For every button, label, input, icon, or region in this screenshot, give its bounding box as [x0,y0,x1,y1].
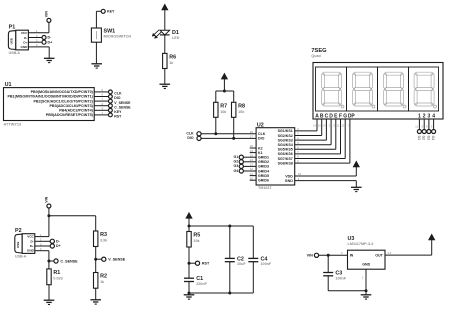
svg-text:U1: U1 [5,82,12,88]
svg-text:3: 3 [428,113,431,119]
svg-text:0.033: 0.033 [53,277,62,281]
svg-text:G4: G4 [431,136,435,140]
svg-text:D-: D- [31,239,34,243]
svg-text:USB-A: USB-A [15,254,27,258]
svg-text:SG8/KS8: SG8/KS8 [278,161,293,165]
svg-text:R2: R2 [100,274,107,280]
svg-text:G3: G3 [426,136,430,140]
svg-text:D+: D+ [23,41,27,45]
svg-text:SG2/KS2: SG2/KS2 [278,134,293,138]
svg-text:G1: G1 [234,155,239,159]
svg-text:GND: GND [285,179,293,183]
svg-text:VCC: VCC [21,31,28,35]
svg-text:R6: R6 [169,55,176,61]
svg-text:DIO: DIO [114,96,121,100]
svg-text:P1: P1 [9,25,16,31]
svg-text:SG5/KS5: SG5/KS5 [278,148,293,152]
svg-text:10k: 10k [220,110,227,114]
svg-text:2: 2 [423,113,426,119]
svg-text:G2: G2 [234,160,239,164]
svg-text:VIN: VIN [44,196,48,202]
svg-text:OUT: OUT [375,254,383,258]
svg-text:D+: D+ [48,40,53,44]
svg-text:SG4/KS4: SG4/KS4 [278,143,293,147]
svg-text:GND: GND [27,249,35,253]
svg-text:IN: IN [350,254,354,258]
svg-text:C_SENSE: C_SENSE [60,259,78,263]
svg-text:ATTINY13: ATTINY13 [4,123,22,127]
svg-text:R3: R3 [100,232,107,238]
svg-text:100nF: 100nF [261,262,272,266]
svg-text:PB0(MOSI/AIN0/OC0A/TXD/PCINT0): PB0(MOSI/AIN0/OC0A/TXD/PCINT0) [31,90,94,94]
svg-text:D+: D+ [30,244,34,248]
svg-text:SW1: SW1 [104,29,116,35]
svg-text:D-: D- [24,36,27,40]
svg-text:C: C [325,113,329,119]
svg-text:SG7/KS7: SG7/KS7 [278,157,293,161]
svg-text:F: F [339,113,342,119]
svg-text:PB1(MISO/INT0/AIN1/OC0B/INT0/R: PB1(MISO/INT0/AIN1/OC0B/INT0/RXD/DI/PCIN… [7,95,93,99]
svg-text:R7: R7 [220,103,227,109]
svg-text:SG3/KS3: SG3/KS3 [278,138,293,142]
svg-text:A: A [315,113,319,119]
svg-text:GND: GND [362,263,370,267]
svg-text:VIN: VIN [44,11,48,17]
svg-text:D: D [329,113,333,119]
svg-text:220nF: 220nF [196,282,207,286]
svg-text:G: G [343,113,347,119]
svg-text:D+: D+ [56,244,61,248]
svg-text:3.9k: 3.9k [100,239,108,243]
svg-text:PB5(ADC0/RESET/PCINT5): PB5(ADC0/RESET/PCINT5) [46,113,94,117]
svg-text:DIO: DIO [187,136,194,140]
svg-text:R5: R5 [193,233,200,239]
svg-text:CLK: CLK [258,132,266,136]
svg-text:GRID5: GRID5 [258,174,269,178]
svg-text:USB-A: USB-A [9,51,21,55]
svg-text:10k: 10k [238,110,245,114]
svg-text:SG1/KS1: SG1/KS1 [278,129,293,133]
svg-text:V_SENSE: V_SENSE [114,101,131,105]
svg-text:G1: G1 [417,136,421,140]
svg-text:DP: DP [348,113,356,119]
svg-text:P2: P2 [15,228,22,234]
svg-text:1: 1 [418,113,421,119]
svg-text:GRID4: GRID4 [258,169,269,173]
svg-text:LM1117MP-3.3: LM1117MP-3.3 [348,242,374,246]
svg-text:SG6/KS6: SG6/KS6 [278,152,293,156]
svg-text:G3: G3 [234,164,239,168]
svg-text:R8: R8 [238,103,245,109]
svg-text:USB: USB [16,241,20,248]
svg-text:KEY: KEY [114,110,122,114]
svg-text:R1: R1 [53,270,60,276]
svg-text:K1: K1 [258,151,263,155]
svg-text:CLK: CLK [186,131,194,135]
svg-text:RST: RST [114,115,122,119]
svg-text:U2: U2 [257,123,264,129]
svg-text:GRID6: GRID6 [258,179,269,183]
svg-text:PB2(SCK/ADC1/CLKO/T0/PCINT2): PB2(SCK/ADC1/CLKO/T0/PCINT2) [33,99,93,103]
svg-text:CLK: CLK [114,92,122,96]
svg-text:100nF: 100nF [335,276,346,280]
svg-text:PB4(ADC2/PCINT4): PB4(ADC2/PCINT4) [59,109,94,113]
svg-text:K2: K2 [258,146,263,150]
svg-text:4: 4 [432,113,435,119]
svg-text:LED: LED [172,36,180,40]
svg-text:2,4: 2,4 [388,251,392,255]
svg-text:RST: RST [202,262,210,266]
svg-text:GRID2: GRID2 [258,160,269,164]
svg-text:VDD: VDD [285,174,293,178]
svg-text:G2: G2 [422,136,426,140]
svg-text:B: B [320,113,324,119]
svg-text:10k: 10k [193,239,200,243]
svg-text:VIN: VIN [307,254,313,258]
svg-text:GRID3: GRID3 [258,165,269,169]
svg-text:USB: USB [10,37,14,44]
svg-text:TM1637: TM1637 [258,186,272,190]
svg-text:C_SENSE: C_SENSE [114,105,131,109]
svg-text:V_SENSE: V_SENSE [108,258,126,262]
svg-text:PB3(ADC3/CLKI/PCINT3): PB3(ADC3/CLKI/PCINT3) [49,104,93,108]
svg-text:VCC: VCC [27,235,34,239]
svg-text:GND: GND [21,45,29,49]
svg-text:KEY: KEY [107,9,115,13]
svg-text:DIO: DIO [258,137,265,141]
svg-text:GRID1: GRID1 [258,156,269,160]
svg-text:10uF: 10uF [237,262,246,266]
svg-text:MICROSWITCH: MICROSWITCH [104,35,132,39]
svg-text:Quad: Quad [311,54,321,58]
svg-text:G4: G4 [234,169,239,173]
